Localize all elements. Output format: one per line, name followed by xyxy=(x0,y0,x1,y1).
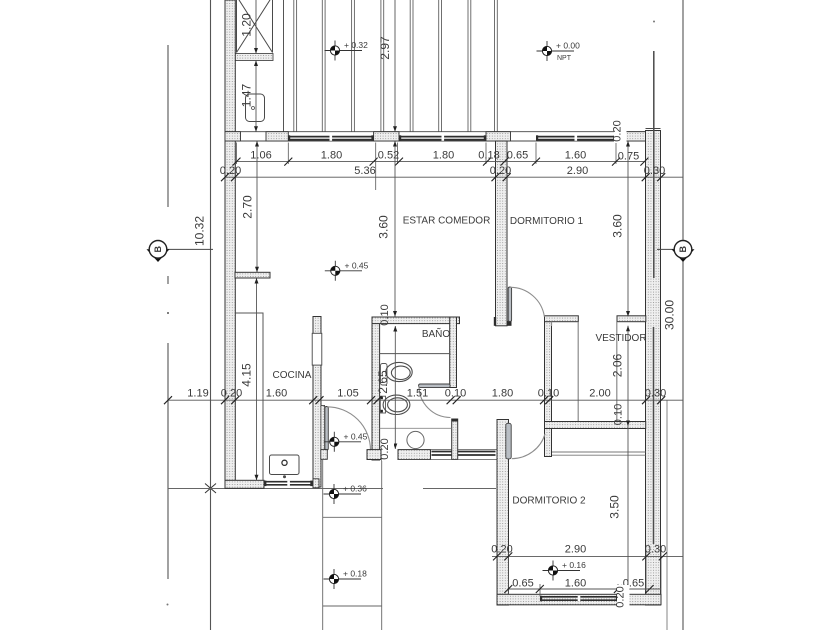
hatched band under crossed box xyxy=(226,54,274,61)
wall top pier 3 xyxy=(374,132,399,141)
svg-text:+ 0.18: + 0.18 xyxy=(343,569,367,579)
window cocina east (opening) xyxy=(312,333,322,365)
svg-text:DORMITORIO 1: DORMITORIO 1 xyxy=(510,216,584,227)
svg-text:0.30: 0.30 xyxy=(645,544,666,556)
dim rowB labels xyxy=(512,578,644,590)
dim row mid labels xyxy=(187,388,666,400)
svg-text:0.65: 0.65 xyxy=(512,578,533,590)
svg-text:1.20: 1.20 xyxy=(240,13,254,37)
svg-text:3.50: 3.50 xyxy=(608,495,622,519)
lot line through right wall lower xyxy=(653,327,655,544)
svg-text:4.15: 4.15 xyxy=(240,363,254,387)
door cocina-passage leaf xyxy=(325,407,328,451)
svg-text:1.80: 1.80 xyxy=(433,150,454,162)
wall right outer corner line xyxy=(646,128,661,130)
svg-text:1.80: 1.80 xyxy=(492,388,513,400)
svg-text:+ 0.45: + 0.45 xyxy=(345,260,369,270)
elevation marker +0.00 NPT xyxy=(537,41,581,63)
svg-text:0.20: 0.20 xyxy=(490,165,511,177)
dim rowB bottom line xyxy=(508,588,661,590)
wall cocina east xyxy=(313,317,321,488)
wall vestidor north seg1 xyxy=(545,316,579,322)
property line dot left xyxy=(167,312,169,314)
svg-text:COCINA: COCINA xyxy=(273,370,312,381)
vdim arrows 2.70 xyxy=(255,141,259,272)
elevation marker +0.32 xyxy=(325,40,369,61)
dim row2 ticks xyxy=(221,173,665,181)
dim extension lines top xyxy=(236,143,617,191)
bano sink (lavabo) xyxy=(386,362,412,381)
deck boundary line x=283.5 xyxy=(283,0,285,132)
svg-text:0.20: 0.20 xyxy=(491,544,512,556)
lot line x=210 xyxy=(210,0,212,630)
svg-text:2.65: 2.65 xyxy=(376,370,390,394)
svg-text:+ 0.32: + 0.32 xyxy=(344,40,368,50)
svg-text:0.10: 0.10 xyxy=(379,304,391,325)
vdim line x=395 (2.97 / 3.60 left) xyxy=(394,0,396,317)
vdim line x=393 (2.65 bano) xyxy=(394,326,396,449)
elevation marker +0.16 dorm2 xyxy=(543,560,587,581)
svg-text:+ 0.45: + 0.45 xyxy=(344,431,368,441)
wall bano south seg2 xyxy=(398,450,431,460)
svg-text:ESTAR COMEDOR: ESTAR COMEDOR xyxy=(403,216,491,227)
door dorm1 arc xyxy=(510,287,544,317)
bano toilet xyxy=(383,395,410,414)
wall top outer face line xyxy=(225,131,661,133)
svg-text:2.90: 2.90 xyxy=(567,165,588,177)
section marker B right xyxy=(657,241,695,263)
svg-text:1.80: 1.80 xyxy=(321,150,342,162)
svg-text:0.20: 0.20 xyxy=(615,586,627,607)
svg-text:1.05: 1.05 xyxy=(337,388,358,400)
backing 0.20 top-right xyxy=(614,119,627,143)
svg-text:1.60: 1.60 xyxy=(266,388,287,400)
svg-text:0.20: 0.20 xyxy=(379,438,391,459)
vestidor closet partition lines xyxy=(552,322,617,422)
svg-text:0.10: 0.10 xyxy=(445,388,466,400)
walkway step line 1 xyxy=(323,516,382,518)
bano toilet tank xyxy=(380,396,385,413)
door dorm1 leaf xyxy=(508,287,511,322)
wall stub door hinge passage xyxy=(321,450,328,460)
dim rowB ticks xyxy=(504,585,653,593)
svg-text:B: B xyxy=(153,246,163,253)
vdim arrows x=256 xyxy=(254,48,258,132)
crossed box (shaft) top-left xyxy=(237,0,273,53)
wall right exterior xyxy=(646,131,661,606)
jamb mark dorm1 doorway at leaf xyxy=(507,321,512,326)
window W3 top (1.60) sill xyxy=(536,137,616,140)
tick X on lot line xyxy=(205,484,216,494)
vdim arrows x=628 xyxy=(626,141,630,594)
jamb mark dorm1 doorway left xyxy=(494,317,496,326)
window W1 top (1.80) sill xyxy=(288,137,373,140)
walkway step line 2 xyxy=(323,605,382,607)
backing 0.20 dorm2 xyxy=(617,585,630,609)
svg-text:BAÑO: BAÑO xyxy=(422,327,451,340)
dim rowA bottom line xyxy=(492,555,683,557)
door jamb strip passage xyxy=(321,406,325,451)
svg-text:3.60: 3.60 xyxy=(611,214,625,238)
wall stub south of cocina door xyxy=(313,479,319,488)
lot line dot right xyxy=(653,21,655,23)
walkway west line xyxy=(322,460,324,630)
wall top pier 5 right xyxy=(616,132,661,141)
dim rowA ticks xyxy=(493,552,667,560)
svg-text:+ 0.00: + 0.00 xyxy=(556,41,580,51)
svg-text:0.52: 0.52 xyxy=(378,150,399,162)
wall divider estar/dorm1 xyxy=(496,141,508,326)
svg-text:1.19: 1.19 xyxy=(187,388,208,400)
wall vestidor south xyxy=(545,422,646,429)
svg-text:1.60: 1.60 xyxy=(565,150,586,162)
window end caps top xyxy=(288,135,616,141)
window end caps cocina south xyxy=(264,481,312,487)
wall top pier 2 xyxy=(266,132,288,141)
water heater knob xyxy=(252,107,255,110)
wall bano north xyxy=(372,317,460,324)
wall top pier corner-left xyxy=(225,132,241,141)
wall bano west xyxy=(372,317,380,460)
vdim arrows 2.65 xyxy=(393,326,397,449)
svg-text:NPT: NPT xyxy=(557,55,572,62)
vdim line x=256.5 (4.15) xyxy=(256,278,258,480)
bano divider line xyxy=(380,353,451,355)
window bano/hall south sill xyxy=(432,452,496,456)
eave line bottom y=488 xyxy=(168,488,496,490)
walkway east line xyxy=(381,460,383,630)
jamb mark bano east lower xyxy=(452,419,458,422)
water heater rounded rect xyxy=(246,94,265,122)
dorm2 closet front lines xyxy=(552,452,646,455)
svg-text:2.97: 2.97 xyxy=(378,36,392,60)
wall vestidor north seg2 xyxy=(617,316,646,322)
deck slats xyxy=(294,0,498,132)
dim row1 labels xyxy=(250,150,639,163)
svg-text:1.60: 1.60 xyxy=(565,578,586,590)
shelf half-wall estar west xyxy=(235,272,270,278)
dim row1 ticks xyxy=(233,158,649,166)
dim rowA labels xyxy=(491,544,666,556)
svg-text:DORMITORIO 2: DORMITORIO 2 xyxy=(512,496,586,507)
svg-text:5.36: 5.36 xyxy=(354,165,375,177)
hall south sill face lines xyxy=(398,450,497,460)
dim extension lines bottom xyxy=(497,551,661,596)
wall vestidor west xyxy=(545,317,552,457)
property line right x=667 xyxy=(666,400,668,630)
svg-text:2.00: 2.00 xyxy=(589,388,610,400)
cocina sink faucet xyxy=(282,460,287,465)
bano sink bracket xyxy=(381,364,388,386)
bano shower drain xyxy=(407,431,424,448)
svg-text:0.10: 0.10 xyxy=(613,404,625,425)
bano shower edge line xyxy=(380,427,452,429)
svg-text:1.51: 1.51 xyxy=(407,388,428,400)
svg-text:0.20: 0.20 xyxy=(612,120,624,141)
cocina sink xyxy=(270,455,300,475)
property line left (dashed) xyxy=(167,45,169,579)
svg-text:1.06: 1.06 xyxy=(250,150,271,162)
property line dot left low xyxy=(167,604,169,606)
wall dorm2 west xyxy=(497,420,509,606)
svg-text:1.47: 1.47 xyxy=(240,83,254,107)
window mullion gaps xyxy=(287,135,580,601)
elevation marker +0.45 passage xyxy=(324,431,368,452)
cocina counter outline xyxy=(235,313,263,481)
vdim line x=257 (2.70) xyxy=(256,141,258,272)
vdim line x=628 (3.60 right / 2.06 / 3.50) xyxy=(627,141,629,594)
wall dorm2 south xyxy=(497,594,661,605)
door dorm2 leaf xyxy=(506,423,511,459)
wall top pier 4 (at divider) xyxy=(486,132,511,141)
vdim line x=256 (1.20/1.47) xyxy=(255,0,257,132)
window dorm2 south sill xyxy=(540,597,618,600)
dim row2 line xyxy=(225,176,683,178)
door dorm2 arc xyxy=(512,434,545,459)
cocina sink drain dot xyxy=(283,475,286,478)
wall bano south corner xyxy=(367,450,381,460)
svg-text:B: B xyxy=(678,246,688,253)
lot line right upper xyxy=(653,51,655,278)
wall bano east upper xyxy=(450,317,457,388)
svg-text:2.90: 2.90 xyxy=(565,544,586,556)
svg-text:2.70: 2.70 xyxy=(241,195,255,219)
svg-text:0.10: 0.10 xyxy=(538,388,559,400)
svg-text:0.75: 0.75 xyxy=(618,151,639,163)
svg-text:+ 0.36: + 0.36 xyxy=(343,484,367,494)
elevation marker +0.45 estar xyxy=(325,260,369,281)
svg-text:2.06: 2.06 xyxy=(611,353,625,377)
svg-text:10.32: 10.32 xyxy=(193,216,207,246)
svg-text:0.20: 0.20 xyxy=(221,388,242,400)
door bano arc xyxy=(419,386,451,418)
svg-text:+ 0.16: + 0.16 xyxy=(562,560,586,570)
svg-text:0.30: 0.30 xyxy=(645,388,666,400)
door bano leaf xyxy=(419,384,451,388)
dim row mid line xyxy=(168,399,683,401)
vdim arrows x=395 xyxy=(393,126,397,316)
window end caps dorm2 south xyxy=(540,596,618,602)
section marker B left xyxy=(147,241,214,263)
dimension line 30.00 x=683 xyxy=(682,0,684,630)
wall left exterior xyxy=(225,0,235,488)
wall cocina south corner xyxy=(225,480,264,488)
elevation marker +0.18 walkway xyxy=(324,569,368,590)
elevation marker +0.30 walkway xyxy=(324,484,368,505)
dim row2 labels xyxy=(220,165,665,177)
svg-text:0.18: 0.18 xyxy=(478,150,499,162)
vdim arrows 4.15 xyxy=(255,278,259,480)
svg-text:VESTIDOR: VESTIDOR xyxy=(595,333,646,344)
window cocina south sill xyxy=(265,482,313,485)
dim row mid ticks xyxy=(164,396,665,404)
door cocina-passage arc xyxy=(327,407,371,451)
wall bano east lower stub xyxy=(452,419,458,460)
svg-text:30.00: 30.00 xyxy=(663,300,677,330)
wall top inner face line xyxy=(235,140,646,142)
window W2 top (1.80) sill xyxy=(399,137,486,140)
dim row1 top line xyxy=(237,161,645,163)
svg-text:0.30: 0.30 xyxy=(644,165,665,177)
backing 0.20 bano xyxy=(382,437,394,461)
svg-text:0.65: 0.65 xyxy=(507,150,528,162)
svg-text:0.20: 0.20 xyxy=(220,165,241,177)
svg-text:3.60: 3.60 xyxy=(377,215,391,239)
